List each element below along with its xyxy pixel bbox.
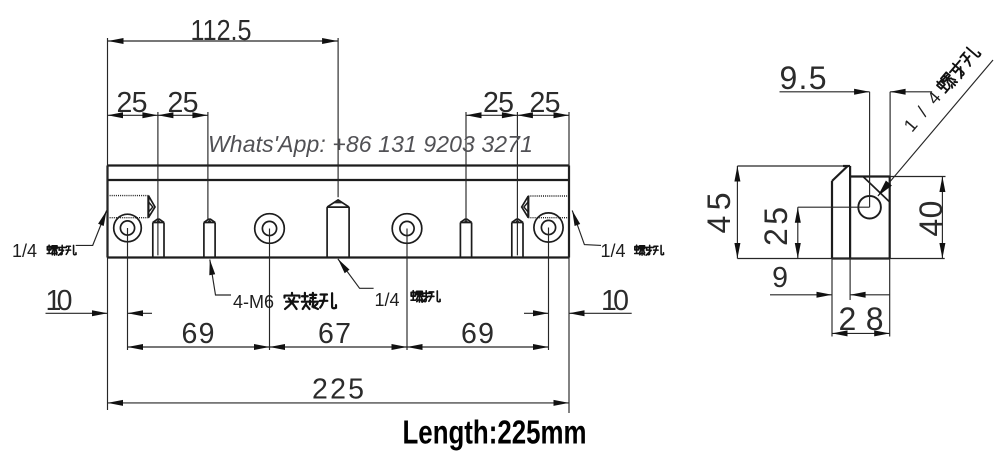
dimension 25 left-2 line [158,114,208,116]
dimension 28 [832,332,890,334]
dimension 45 [736,166,738,259]
svg-text:112.5: 112.5 [191,15,252,47]
bar bottom edge [108,256,570,258]
svg-text:9.5: 9.5 [780,60,827,96]
svg-text:4-M6: 4-M6 [233,292,274,312]
dimension 225 line [108,402,570,404]
extension line stud4 center [516,112,518,255]
stud 4 [512,219,523,257]
left screw tip [148,196,155,218]
svg-text:25: 25 [117,87,148,119]
counterbore hole 2 outer [255,214,285,244]
side view chamfer [832,166,848,181]
dimension 9.5 [780,91,870,93]
dimension 10 left [46,312,108,314]
counterbore hole 3 outer [392,214,422,244]
extension line hole3 center [406,229,408,351]
right screw tip [522,196,529,218]
dimension 112.5 line [108,40,338,42]
extension blade right below [849,259,851,301]
svg-text:67: 67 [318,318,351,350]
svg-text:1/4: 1/4 [601,241,626,261]
bar outline top edge [108,164,570,166]
extension line stud1 center [157,112,159,255]
left screw body bottom (hidden) [108,217,149,219]
svg-text:225: 225 [312,374,364,406]
center stud [327,200,349,258]
extension line bar right edge [568,112,570,413]
svg-text:1/4: 1/4 [375,290,400,310]
counterbore hole 2 inner [262,221,276,235]
left screw cone base [147,196,149,218]
dimension 9 [770,294,832,296]
svg-text:Length:225mm: Length:225mm [403,414,587,451]
svg-text:69: 69 [461,318,494,350]
side view block right edge [889,177,891,259]
svg-text:10: 10 [46,285,73,317]
extension line hole2 center [269,229,271,351]
stud 2 [204,219,215,257]
right screw body bottom (hidden) [528,217,569,219]
extension line hole1 center [127,228,129,350]
side view blade right edge [849,166,851,259]
left screw tip inner chevron [149,202,153,212]
extension line stud3 center [465,112,467,220]
svg-text:25: 25 [483,87,514,119]
left screw body top (hidden) [108,195,149,197]
dimension 25 left-1 line [108,114,158,116]
dimension 25 right-2 line [517,114,569,116]
svg-text:10: 10 [601,285,629,317]
side view block top edge [850,175,890,177]
side view top edge + extension [737,165,847,167]
dimension 25 right-1 line [466,114,517,116]
extension line circle center vertical [869,92,871,207]
right screw cone base [527,196,529,218]
counterbore hole 1 inner [120,221,134,235]
extension line stud2 center [207,112,209,220]
counterbore hole 4 outer [534,213,563,242]
dimension 40 [890,176,946,178]
svg-text:25: 25 [530,87,561,119]
extension line center stud [337,38,339,197]
side view corner diagonal [863,177,890,203]
right screw tip inner chevron [524,202,528,212]
right screw body top (hidden) [528,195,569,197]
dimension 69/67/69 line [128,346,549,348]
bar inner step line [108,179,570,181]
stud 3 [460,219,471,257]
bar left edge [106,166,108,258]
svg-text:Whats'App: +86 131 9203 3271: Whats'App: +86 131 9203 3271 [208,131,533,157]
side view threaded hole circle [858,196,881,219]
extension line block right vertical top [889,92,891,177]
counterbore hole 4 inner [541,220,555,234]
extension blade left below [831,259,833,337]
extension line hole4 center [548,228,550,351]
leader 1/4 threaded hole side [878,60,993,196]
side view bottom extension line [737,258,944,260]
bar right edge [568,166,570,258]
svg-text:40: 40 [913,201,949,237]
dimension 25 side [797,207,799,258]
dimension 10 right [524,312,549,314]
svg-text:9: 9 [772,262,788,294]
svg-text:69: 69 [182,318,215,350]
svg-text:1/4: 1/4 [12,241,37,261]
side view blade left edge [831,181,833,259]
counterbore hole 3 inner [400,221,414,235]
extension block right below [889,259,891,337]
extension line bar left edge (full) [107,38,109,410]
counterbore hole 1 outer [114,214,142,242]
stud 1 [153,219,164,257]
svg-text:25: 25 [168,87,199,119]
side view bottom edge [832,257,890,259]
